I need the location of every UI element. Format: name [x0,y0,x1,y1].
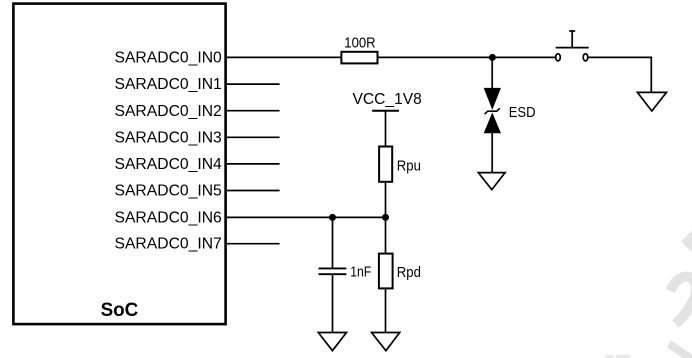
wire IN5 stub [227,190,280,192]
resistor Rpu [379,147,392,182]
svg-text:Rpu: Rpu [397,158,421,175]
switch S1 actuator stem [571,31,573,48]
SoC U1 box [13,4,225,325]
ESD diode D1 lower triangle [484,114,500,133]
capacitor C1 bottom plate [319,273,347,275]
ground capacitor side [318,333,346,351]
wire node B to Rpd [385,217,387,253]
wire IN4 stub [227,163,280,165]
node A junction dot [489,54,496,61]
watermark diagonal bottom right [669,344,692,358]
ground switch side [637,92,666,111]
switch S1 left contact [556,54,561,61]
watermark curve [671,276,692,324]
svg-text:SARADC0_IN1: SARADC0_IN1 [115,76,222,93]
wire IN1 stub [227,83,280,85]
svg-text:VCC_1V8: VCC_1V8 [353,91,422,108]
switch S1 right contact [583,54,588,61]
svg-text:SARADC0_IN2: SARADC0_IN2 [115,103,222,120]
svg-text:SoC: SoC [101,299,139,321]
wire IN0 to resistor [227,56,342,58]
node C junction dot [329,214,336,221]
resistor R1 100R [341,52,377,64]
watermark diamond right edge [681,231,692,253]
ground ESD side [478,173,505,190]
wire capacitor to ground [332,275,334,333]
wire switch to corner [588,57,652,92]
svg-text:SARADC0_IN3: SARADC0_IN3 [115,129,222,146]
wire Rpu to node B [385,182,387,218]
wire resistor to node A [378,56,556,58]
wire IN2 stub [227,110,280,112]
wire node C to capacitor [332,217,334,267]
svg-text:ESD: ESD [509,104,536,121]
wire IN7 stub [227,243,280,245]
wire VCC to Rpu [385,111,387,147]
ground Rpd side [372,333,400,351]
ESD diode D1 zener bar [485,108,500,114]
svg-text:Rpd: Rpd [397,264,421,281]
svg-text:SARADC0_IN7: SARADC0_IN7 [115,236,222,253]
svg-text:SARADC0_IN0: SARADC0_IN0 [115,49,223,66]
watermark letter tips bottom edge [606,355,614,358]
svg-text:SARADC0_IN5: SARADC0_IN5 [115,182,222,199]
resistor Rpd [379,254,393,289]
ESD diode D1 upper triangle [484,88,500,108]
wire ESD to ground [491,133,493,173]
svg-text:SARADC0_IN6: SARADC0_IN6 [115,209,222,226]
wire Rpd to ground [385,288,387,332]
switch S1 actuator cap [569,30,575,32]
svg-text:1nF: 1nF [350,263,371,280]
wire IN3 stub [227,136,280,138]
capacitor C1 top plate [319,267,347,269]
wire node A to ESD [491,57,493,88]
switch S1 actuator bar [556,47,589,49]
svg-text:100R: 100R [344,35,375,52]
power VCC_1V8 bar [372,110,399,112]
svg-text:SARADC0_IN4: SARADC0_IN4 [115,156,223,173]
wire IN6 net [227,216,386,218]
node B junction dot [382,214,389,221]
